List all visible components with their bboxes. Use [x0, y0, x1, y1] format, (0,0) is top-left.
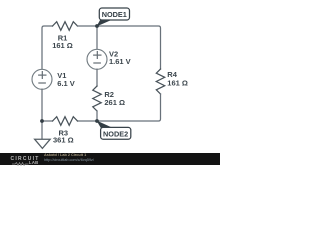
footer title line [44, 153, 86, 157]
resistor R1 [53, 22, 78, 31]
svg-text:6.1 V: 6.1 V [57, 79, 75, 88]
resistor R2 [93, 86, 101, 111]
wire V1 to bottom [41, 89, 43, 121]
wire top-left corner [42, 26, 53, 69]
CircuitLab logo text LAB [29, 160, 39, 165]
resistor R4 [156, 69, 164, 94]
junction node A (top) [95, 24, 99, 28]
wire V2 to R2 [96, 69, 98, 86]
junction node B (bottom left) [40, 119, 44, 123]
svg-text:161 Ω: 161 Ω [167, 79, 188, 88]
ground stem [41, 121, 43, 139]
CircuitLab logo resistor zigzag [12, 162, 29, 166]
svg-text:161 Ω: 161 Ω [52, 41, 73, 50]
svg-text:NODE1: NODE1 [102, 10, 127, 19]
NODE2 label box [101, 127, 131, 139]
footer bar [0, 153, 220, 166]
NODE1 label box [99, 8, 129, 20]
ground [35, 139, 51, 148]
footer url line [44, 158, 94, 162]
wire right vertical lower + bottom corner [78, 94, 161, 121]
wire R2 to bottom [96, 111, 98, 121]
voltage source V2 [87, 49, 107, 69]
svg-text:361 Ω: 361 Ω [53, 136, 74, 145]
CircuitLab logo text CIRCUIT [11, 156, 40, 162]
resistor R3 [53, 117, 78, 126]
svg-text:261 Ω: 261 Ω [104, 98, 125, 107]
wire bottom left lead [42, 120, 53, 122]
junction node C (bottom mid) [95, 119, 99, 123]
svg-text:1.61 V: 1.61 V [109, 57, 131, 66]
wire top to right corner [78, 26, 161, 69]
wire middle upper [96, 26, 98, 49]
voltage source V1 [32, 69, 52, 89]
NODE1 flag pointer [97, 19, 114, 26]
svg-text:NODE2: NODE2 [103, 130, 128, 139]
NODE2 flag pointer [97, 121, 114, 129]
